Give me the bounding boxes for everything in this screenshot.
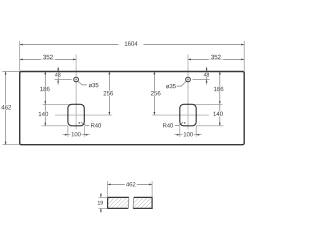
dimension 462 section line bbox=[108, 183, 153, 185]
label ø35 right text bbox=[166, 84, 176, 88]
faucet hole left bbox=[74, 77, 79, 82]
dimension 352 right text bbox=[209, 55, 224, 60]
dimension 48 left text bbox=[55, 73, 62, 77]
dimension 352 left arrows bbox=[20, 58, 23, 60]
section slab right piece bbox=[133, 197, 152, 208]
dimension 140 left text bbox=[37, 112, 49, 117]
leader ø35 left bbox=[78, 81, 87, 85]
dimension 462 side line bbox=[5, 72, 7, 145]
dimension 140 right arrow bbox=[219, 123, 221, 126]
extension line right sink bottom bbox=[196, 125, 224, 127]
dimension 1604 line bbox=[20, 44, 245, 46]
dimension 186 left arrows bbox=[44, 72, 46, 75]
dimension 19 text bbox=[97, 201, 104, 205]
dimension 48 left arrows bbox=[57, 69, 59, 72]
extension line section 19 bottom bbox=[99, 207, 108, 209]
extension line right sink top bbox=[192, 103, 223, 105]
section slab right break edge bbox=[132, 197, 135, 208]
extension line section 462 right bbox=[151, 181, 153, 197]
dimension 48 right arrows bbox=[206, 69, 208, 72]
dimension 462 side arrows bbox=[5, 72, 7, 75]
label ø35 left text bbox=[89, 83, 99, 87]
centerline left sink horizontal bbox=[55, 114, 112, 116]
dimension 462 section arrows bbox=[108, 183, 111, 185]
dimension 256 right text bbox=[150, 91, 162, 96]
dimension 256 left line bbox=[108, 72, 110, 116]
dimension 140 right line bbox=[219, 104, 221, 126]
centerline right sink horizontal bbox=[152, 114, 209, 116]
extension line right edge vertical bbox=[243, 41, 245, 72]
section slab left break edge bbox=[127, 197, 130, 208]
extension line left sink cutout 100 right bbox=[83, 126, 85, 137]
faucet hole right bbox=[186, 77, 191, 82]
extension line right faucet level bbox=[193, 79, 210, 81]
dimension 100 right line bbox=[175, 134, 202, 136]
sink cutout left bbox=[68, 104, 84, 126]
dimension 186 right arrows bbox=[219, 72, 221, 75]
dimension 140 left arrow bbox=[44, 123, 46, 126]
dimension 186 left line bbox=[44, 72, 46, 105]
dimension 48 right text bbox=[203, 73, 210, 77]
dimension 462 side text bbox=[1, 105, 12, 110]
extension line section 19 top bbox=[99, 196, 108, 198]
dimension 352 right line bbox=[188, 58, 244, 60]
dimension 256 right arrows bbox=[153, 72, 155, 75]
radius center dot left sink bbox=[79, 122, 80, 123]
dimension 19 line bbox=[100, 193, 102, 197]
dimension 256 right line bbox=[153, 72, 155, 116]
dimension 48 right line bbox=[206, 67, 208, 72]
dimension 186 right line bbox=[219, 72, 221, 105]
sink cutout right bbox=[180, 104, 196, 126]
extension line bottom edge to 462 dim bbox=[2, 144, 19, 146]
dimension 256 left arrows bbox=[108, 72, 110, 75]
dimension 1604 arrows bbox=[20, 44, 23, 46]
extension line section 462 left bbox=[107, 181, 109, 197]
extension line left sink bottom bbox=[42, 125, 69, 127]
leader R40 left bbox=[81, 122, 89, 125]
dimension 462 section text bbox=[125, 182, 137, 187]
dimension 1604 text bbox=[119, 41, 144, 46]
centerline left faucet-sink vertical bbox=[75, 55, 77, 130]
dimension 100 left line bbox=[63, 134, 90, 136]
leader R40 right bbox=[175, 122, 183, 125]
label R40 left text bbox=[91, 123, 101, 127]
countertop outline top view bbox=[20, 72, 245, 145]
dimension 186 right text bbox=[213, 87, 225, 92]
dimension 100 left text bbox=[70, 132, 82, 137]
extension line right sink cutout 100 left bbox=[179, 126, 181, 137]
dimension 256 left text bbox=[102, 91, 114, 96]
dimension 140 left line bbox=[44, 104, 46, 126]
section slab left piece bbox=[108, 197, 129, 208]
dimension 352 left text bbox=[41, 55, 56, 60]
extension line left edge vertical bbox=[19, 41, 21, 72]
radius center dot right sink bbox=[184, 122, 185, 123]
dimension 140 right text bbox=[212, 111, 224, 116]
dimension 100 left arrows bbox=[65, 134, 68, 136]
leader ø35 right bbox=[177, 81, 187, 86]
label R40 right text bbox=[163, 123, 173, 127]
dimension 352 left line bbox=[20, 58, 76, 60]
extension line top edge to 462 dim bbox=[2, 71, 19, 73]
dimension 186 left text bbox=[39, 87, 51, 92]
dimension 48 left line bbox=[57, 67, 59, 72]
dimension 352 right arrows bbox=[188, 58, 191, 60]
extension line right sink cutout 100 right bbox=[195, 126, 197, 137]
dimension 19 arrows bbox=[100, 194, 102, 197]
dimension 100 right text bbox=[182, 132, 194, 137]
extension line left faucet level bbox=[55, 79, 72, 81]
dimension 100 right arrows bbox=[177, 134, 180, 136]
extension line left sink cutout 100 left bbox=[67, 126, 69, 137]
extension line left sink top bbox=[43, 103, 72, 105]
centerline right faucet-sink vertical bbox=[187, 55, 189, 130]
